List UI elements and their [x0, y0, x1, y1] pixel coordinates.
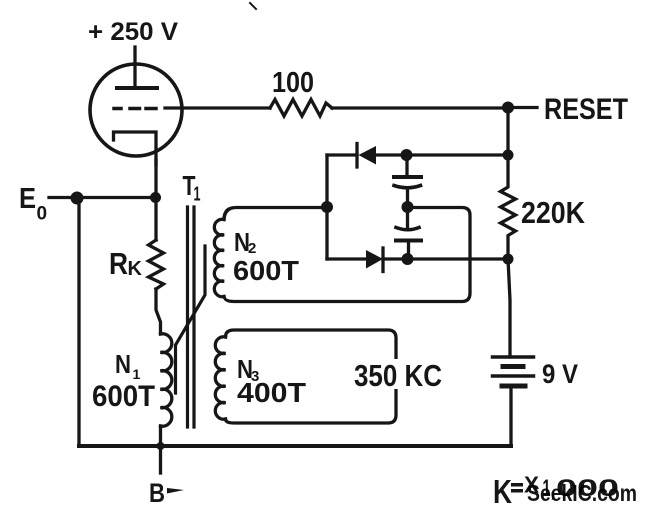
- tube grid (dashed): [114, 107, 156, 111]
- wire B- stub: [159, 446, 162, 473]
- node B junction: [157, 442, 165, 450]
- transformer T1 core line right: [192, 207, 195, 427]
- svg-text:9 V: 9 V: [542, 359, 578, 389]
- label T1: [183, 170, 201, 206]
- wire E0 node to cathode node: [77, 196, 156, 199]
- capacitor C1: [394, 155, 421, 201]
- inductor N2 winding: [214, 219, 224, 296]
- svg-text:400T: 400T: [237, 377, 306, 408]
- wire battery to bottom rail: [509, 386, 512, 446]
- node cathode junction: [150, 192, 161, 203]
- node 220K bottom junction: [503, 254, 514, 265]
- wire resistor to RESET node: [332, 106, 508, 109]
- wire bridge top right segment: [407, 153, 509, 156]
- diode D1 (points left): [357, 144, 406, 168]
- inductor N1 winding: [161, 334, 172, 426]
- node capacitor mid junction: [402, 201, 414, 213]
- svg-text:N: N: [115, 349, 131, 379]
- tube V1 envelope: [90, 64, 182, 156]
- diode D2 (points right): [366, 248, 406, 272]
- wire bridge top left segment: [327, 153, 357, 156]
- node capacitor top junction: [401, 149, 413, 161]
- node bridge left / N2 junction: [321, 201, 333, 213]
- resistor 100: [270, 100, 332, 117]
- wire bridge bottom right segment: [408, 257, 509, 260]
- label K = x1,000: [493, 472, 619, 510]
- node RESET junction: [502, 102, 514, 114]
- tube cathode: [114, 132, 157, 165]
- svg-text:E: E: [19, 183, 36, 215]
- svg-text:K: K: [493, 473, 512, 510]
- svg-text:100: 100: [272, 67, 314, 99]
- svg-text:SeekIC.com: SeekIC.com: [527, 480, 637, 506]
- svg-text:+ 250 V: + 250 V: [88, 18, 178, 46]
- wire bridge left vertical: [325, 155, 328, 259]
- wire cathode lead down to E0 node: [154, 160, 157, 197]
- svg-text:0: 0: [37, 204, 48, 225]
- label B-: [149, 478, 184, 508]
- wire bridge bottom left segment: [327, 257, 366, 260]
- svg-text:R: R: [109, 246, 128, 281]
- wire N3 box outline: [226, 330, 397, 423]
- svg-text:600T: 600T: [233, 255, 299, 286]
- wire right rail RESET to bridge: [506, 108, 509, 155]
- transformer T1 core line left: [186, 207, 189, 427]
- transformer T1 slug line: [176, 246, 206, 393]
- label N1: [115, 349, 141, 382]
- svg-text:RESET: RESET: [544, 93, 628, 126]
- svg-text:1: 1: [194, 184, 201, 206]
- node capacitor bottom junction: [402, 253, 414, 265]
- label N2: [234, 227, 256, 257]
- label RK: [109, 246, 143, 281]
- wire anode lead from +250V to plate: [133, 47, 136, 88]
- wire right rail to battery: [508, 259, 510, 357]
- inductor N3 winding: [215, 337, 225, 419]
- label 350 KC: [350, 358, 446, 393]
- svg-text:600T: 600T: [92, 380, 155, 413]
- wire N2 bottom lead around right side to capacitor mid node: [224, 208, 470, 302]
- svg-text:B: B: [149, 478, 165, 508]
- capacitor C2: [396, 207, 421, 259]
- wire RESET stub: [508, 106, 537, 109]
- wire tube grid to resistor: [165, 106, 270, 109]
- label E0: [19, 183, 47, 225]
- wire bottom rail: [79, 444, 511, 448]
- wire E0 stub: [49, 196, 77, 199]
- battery B1: [493, 357, 534, 386]
- node E0 junction: [71, 192, 84, 205]
- wire cathode node down to RK: [154, 197, 157, 240]
- stray mark top: [250, 3, 256, 9]
- resistor 220K: [501, 155, 516, 259]
- svg-text:350 KC: 350 KC: [354, 358, 442, 393]
- wire RK to N1: [156, 289, 161, 334]
- wire N2 top lead to bridge left node: [224, 208, 327, 220]
- wire N1 to bottom rail: [159, 426, 162, 446]
- resistor RK: [149, 240, 164, 289]
- label N3: [237, 354, 259, 385]
- svg-text:220K: 220K: [521, 195, 586, 230]
- wire left rail down: [77, 198, 80, 446]
- svg-text:K: K: [128, 258, 143, 280]
- tube plate: [117, 86, 157, 90]
- node 220K top junction: [503, 150, 514, 161]
